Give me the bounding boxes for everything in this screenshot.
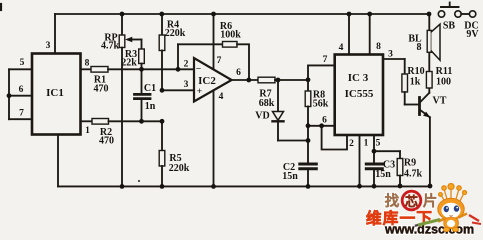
svg-text:VT: VT	[433, 96, 447, 107]
svg-text:片: 片	[423, 192, 438, 210]
wire IC2 pin4 drop	[213, 91, 215, 187]
watermark text 找 片	[385, 192, 438, 210]
svg-text:2: 2	[349, 139, 354, 149]
svg-text:4.7k: 4.7k	[101, 41, 120, 52]
resistor R8	[307, 80, 309, 91]
IC3 555	[335, 55, 383, 136]
printing speck	[138, 180, 140, 182]
resistor R11	[428, 52, 430, 71]
antennae	[439, 184, 467, 202]
capacitor C3	[373, 151, 375, 162]
svg-text:15n: 15n	[375, 169, 391, 180]
wire R7 to pin7 column	[275, 79, 308, 81]
resistor R1	[91, 67, 108, 73]
watermark	[366, 184, 481, 237]
svg-text:5: 5	[376, 139, 381, 149]
top V+ rail	[55, 13, 429, 15]
svg-text:C1: C1	[144, 83, 156, 94]
svg-text:6: 6	[19, 85, 24, 95]
svg-text:+: +	[197, 87, 202, 97]
svg-text:1n: 1n	[145, 101, 156, 112]
op-amp IC2	[194, 58, 232, 102]
svg-text:2: 2	[184, 60, 189, 70]
svg-text:56k: 56k	[313, 99, 329, 110]
svg-text:芯: 芯	[405, 194, 418, 209]
wire pin5 drop	[373, 135, 375, 151]
svg-text:VD: VD	[255, 111, 269, 122]
svg-text:6: 6	[236, 68, 241, 78]
svg-text:−: −	[196, 65, 201, 75]
feet	[443, 227, 449, 231]
wire pin6 to pin2 jog	[322, 126, 347, 150]
transistor VT	[418, 98, 421, 115]
svg-text:7: 7	[217, 56, 222, 66]
svg-text:7: 7	[19, 109, 24, 119]
svg-text:68k: 68k	[259, 98, 275, 109]
left arm + pen	[438, 219, 445, 222]
svg-text:IC1: IC1	[46, 87, 64, 99]
svg-text:1: 1	[364, 139, 369, 149]
resistor R5	[161, 121, 163, 150]
wire pin1 stub	[81, 120, 93, 122]
RP wiper arrow	[128, 39, 142, 41]
wire VD bottom to column	[278, 140, 308, 142]
resistor R7	[258, 77, 275, 83]
svg-text:R11: R11	[436, 66, 453, 77]
wire base	[405, 104, 419, 106]
svg-text:470: 470	[99, 136, 114, 147]
svg-text:IC2: IC2	[198, 75, 216, 87]
svg-text:8: 8	[417, 42, 422, 53]
wire pin7 stub	[9, 118, 32, 120]
wire pin3 riser	[54, 14, 56, 54]
wire left vertical	[8, 69, 10, 119]
svg-text:470: 470	[94, 84, 109, 95]
wire IC1 bottom riser	[57, 135, 59, 187]
right arm	[459, 214, 468, 218]
wire pin8 riser	[369, 14, 371, 55]
wire pin5 stub	[9, 68, 32, 70]
resistor R4	[161, 14, 163, 35]
capacitor C1	[141, 69, 143, 93]
capacitor C2	[300, 163, 317, 166]
svg-text:6: 6	[322, 116, 327, 126]
body	[444, 218, 459, 229]
wire 555 pin7	[308, 65, 335, 80]
svg-text:SB: SB	[443, 21, 456, 32]
svg-text:3: 3	[388, 50, 393, 60]
svg-text:5: 5	[20, 58, 25, 68]
svg-text:8: 8	[85, 59, 90, 69]
mascot	[415, 184, 481, 232]
wire pin3 of IC2	[162, 89, 194, 91]
svg-text:3: 3	[184, 80, 189, 90]
wire 555 pin6	[308, 125, 335, 127]
corner artifact	[0, 4, 2, 10]
svg-text:1k: 1k	[410, 77, 421, 88]
head	[438, 198, 464, 220]
eyes	[444, 206, 449, 212]
svg-text:15n: 15n	[282, 171, 298, 182]
svg-text:www.dzsc.com: www.dzsc.com	[384, 223, 474, 237]
wire pin3 stub	[383, 58, 405, 60]
svg-text:9V: 9V	[466, 29, 479, 40]
svg-text:22k: 22k	[121, 58, 137, 69]
resistor R2	[92, 119, 109, 125]
wire pin6 stub	[9, 95, 32, 97]
wire IC2 output	[232, 79, 258, 81]
resistor R3	[141, 40, 143, 50]
svg-text:IC555: IC555	[345, 88, 374, 100]
watermark seal ring	[402, 191, 421, 210]
resistor R9	[399, 151, 401, 158]
svg-text:R9: R9	[404, 158, 416, 169]
wire R2 to R5 column	[109, 120, 163, 122]
svg-text:100k: 100k	[220, 30, 241, 41]
svg-text:8: 8	[376, 42, 381, 52]
IC1	[32, 54, 81, 135]
svg-text:3: 3	[46, 41, 51, 51]
svg-text:7: 7	[323, 55, 328, 65]
DC terminal	[469, 11, 475, 17]
potentiometer RP	[121, 14, 123, 35]
svg-text:4: 4	[219, 92, 224, 102]
svg-text:220k: 220k	[165, 28, 186, 39]
loudspeaker BL	[428, 14, 430, 30]
wire IC2 pin7 riser	[213, 14, 215, 69]
resistor R10	[404, 59, 406, 74]
svg-text:100: 100	[436, 77, 451, 88]
feedback wire	[178, 43, 223, 45]
svg-text:220k: 220k	[169, 163, 190, 174]
svg-text:1: 1	[85, 126, 90, 136]
resistor R6	[223, 42, 238, 48]
svg-text:IC 3: IC 3	[348, 72, 369, 84]
wire pin4 riser	[348, 14, 350, 55]
wire pin8 stub	[81, 68, 92, 70]
wire pin2 riser to feedback	[177, 44, 179, 69]
wire pin5 node to R9	[374, 150, 400, 152]
switch SB	[438, 11, 444, 17]
svg-text:4: 4	[339, 43, 344, 53]
wire R1 to IC2 pin2	[108, 68, 194, 70]
svg-text:4.7k: 4.7k	[404, 169, 423, 180]
svg-text:R10: R10	[407, 66, 424, 77]
svg-text:找: 找	[385, 192, 400, 210]
wire pin1 drop	[359, 135, 361, 186]
diode VD	[277, 80, 279, 112]
bottom ground rail	[58, 185, 430, 187]
